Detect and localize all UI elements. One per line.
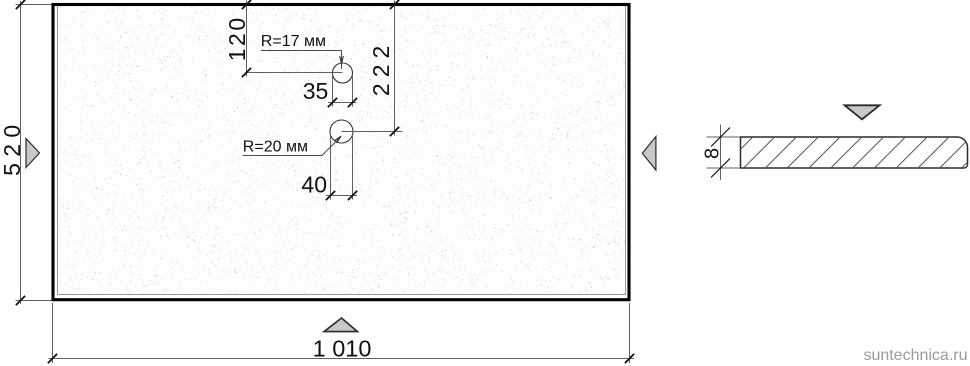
svg-text:R=17 мм: R=17 мм xyxy=(261,33,326,50)
svg-text:222: 222 xyxy=(368,40,394,96)
svg-text:1 010: 1 010 xyxy=(313,335,372,361)
svg-text:120: 120 xyxy=(224,15,250,61)
svg-text:R=20 мм: R=20 мм xyxy=(243,138,308,155)
svg-text:35: 35 xyxy=(303,78,329,104)
svg-text:520: 520 xyxy=(0,119,25,176)
svg-text:40: 40 xyxy=(301,172,327,198)
svg-text:8: 8 xyxy=(702,148,724,159)
svg-text:suntechnica.ru: suntechnica.ru xyxy=(863,347,967,364)
